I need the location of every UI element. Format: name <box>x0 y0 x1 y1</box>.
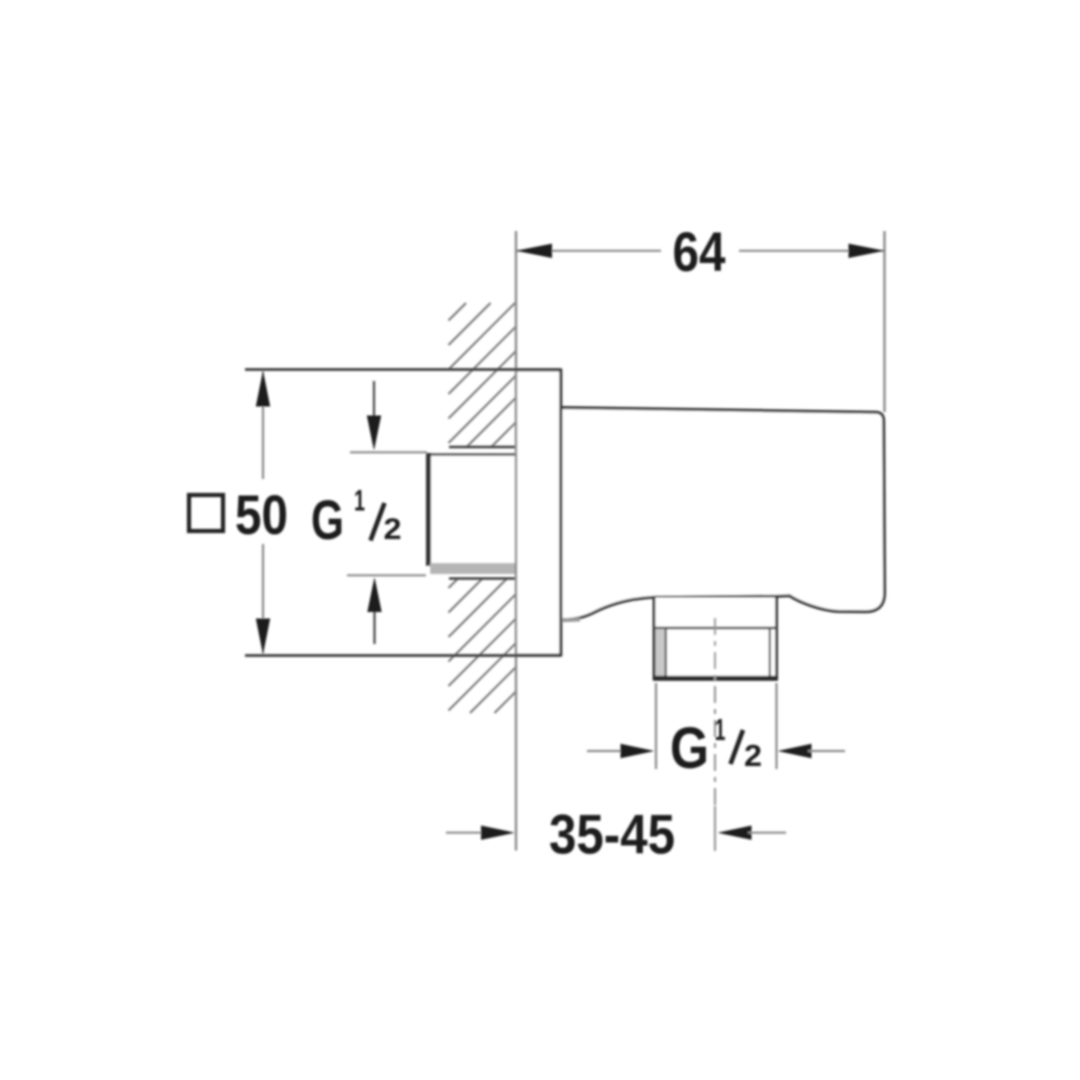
svg-text:G: G <box>670 716 709 781</box>
wall hole bottom edge <box>449 577 516 580</box>
wall surface line <box>515 231 517 851</box>
svg-text:1: 1 <box>354 485 365 518</box>
inlet G1/2 dim: top arrow <box>373 381 375 430</box>
dimension 50: bottom arrowhead <box>256 619 270 655</box>
dimension 50: bottom extension line <box>245 654 561 657</box>
outlet G1/2 dim: right extension line <box>775 683 777 769</box>
outlet G1/2 dim: right arrow <box>778 744 812 758</box>
inlet G1/2 dim: top extension line <box>350 451 427 453</box>
svg-text:G: G <box>311 488 344 551</box>
wall hole top edge <box>449 446 516 449</box>
svg-text:64: 64 <box>673 220 726 283</box>
dimension 64: right arrowhead <box>849 244 885 258</box>
wall hatching upper <box>449 303 517 447</box>
wall hatching lower <box>449 579 517 713</box>
body of elbow <box>561 408 885 620</box>
inlet G1/2 dim: bottom extension line <box>347 574 426 576</box>
svg-text:2: 2 <box>744 738 762 773</box>
dimension 64: right extension line <box>883 231 885 412</box>
svg-text:35-45: 35-45 <box>549 802 675 865</box>
dimension 64: line <box>516 250 661 252</box>
dimension 50: line <box>262 372 264 479</box>
outlet G1/2 dim: left arrow <box>587 750 625 752</box>
flange plate outline (top, right, bottom) <box>515 370 561 655</box>
inlet G1/2 dim: bottom arrow <box>373 596 375 644</box>
outlet G1/2 label <box>670 712 762 781</box>
dimension 35-45: left arrow <box>446 832 484 834</box>
dimension 35-45: right arrow <box>718 826 752 840</box>
inlet G1/2 label <box>311 485 402 552</box>
inlet nipple G1/2 behind wall <box>426 453 516 574</box>
dimension 64: left arrowhead <box>516 244 552 258</box>
centerline of outlet <box>714 618 716 806</box>
svg-text:50: 50 <box>235 483 288 546</box>
dimension 50: top extension line <box>245 368 561 371</box>
dimension 50: top arrowhead <box>256 371 270 407</box>
outlet union nut <box>653 596 778 681</box>
dimension 50: square symbol <box>189 495 223 531</box>
svg-text:1: 1 <box>715 712 726 747</box>
body saddle tick near flange <box>562 618 580 623</box>
outlet G1/2 dim: left extension line <box>655 683 657 769</box>
flange plate fill <box>517 370 561 656</box>
svg-text:2: 2 <box>384 513 402 546</box>
